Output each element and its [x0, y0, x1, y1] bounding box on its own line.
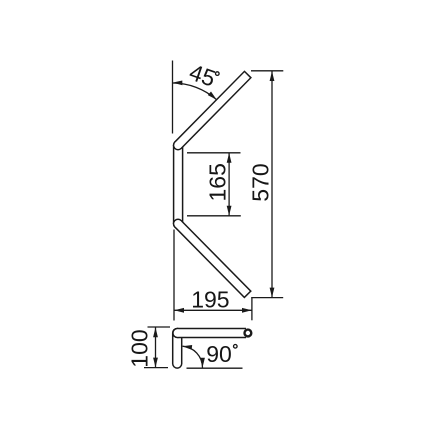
tube main view: vertical middle segment (capsule, drawn first): [173, 145, 184, 224]
arrow 195 right: [242, 308, 252, 313]
tube bottom view: horizontal segment with round cap at bend: [177, 328, 246, 339]
svg-text:570: 570: [248, 163, 274, 201]
arrow 165 top: [227, 153, 232, 163]
arc for 45 deg angle: [173, 83, 217, 100]
svg-text:165: 165: [205, 163, 231, 201]
dimension line 195: [174, 309, 252, 311]
extension line bottom for 165 dim: [187, 215, 241, 217]
dimension line 165: [228, 153, 230, 216]
svg-text:195: 195: [191, 286, 229, 312]
arrow 100 top: [153, 327, 158, 337]
arrow 195 left: [174, 308, 184, 313]
svg-text:90: 90: [206, 341, 232, 367]
extension line top for 570 dim: [251, 70, 283, 72]
dimension line 570: [271, 71, 273, 298]
degree ring for 45: [216, 72, 220, 76]
arrow 165 bottom: [227, 206, 232, 216]
extension line top for 100 dim: [148, 326, 171, 328]
arrow 90 arc lower end: [200, 358, 205, 368]
tube main view: upper 45 diagonal segment with round cap at bend: [178, 74, 248, 145]
extension line bottom for 570 dim: [251, 297, 283, 299]
extension line right for 195 dim: [251, 298, 253, 321]
dimension line 100: [155, 327, 157, 367]
arrow 570 top: [270, 71, 275, 81]
horizontal leg line for 90 deg angle: [187, 367, 243, 369]
extension line top for 165 dim: [187, 152, 241, 154]
tube bottom view: vertical leg (capsule, drawn first): [172, 333, 183, 364]
extension line bottom for 100 dim: [144, 367, 168, 369]
arc for 90 deg angle: [183, 346, 203, 368]
extension line vertical for 45 deg angle: [172, 61, 174, 134]
arrow 90 arc upper end: [182, 345, 192, 350]
extension line left for 195 dim: [173, 230, 175, 321]
arrow 45 arc right end: [208, 92, 217, 100]
svg-text:100: 100: [127, 329, 153, 367]
arrow 100 bottom: [153, 358, 158, 368]
degree ring for 90: [234, 345, 238, 349]
tube bottom view: end circle: [245, 330, 252, 337]
arrow 570 bottom: [270, 288, 275, 298]
tube main view: lower 45 diagonal segment with round cap at bend: [178, 224, 248, 295]
arrow 45 arc left end: [173, 81, 183, 86]
